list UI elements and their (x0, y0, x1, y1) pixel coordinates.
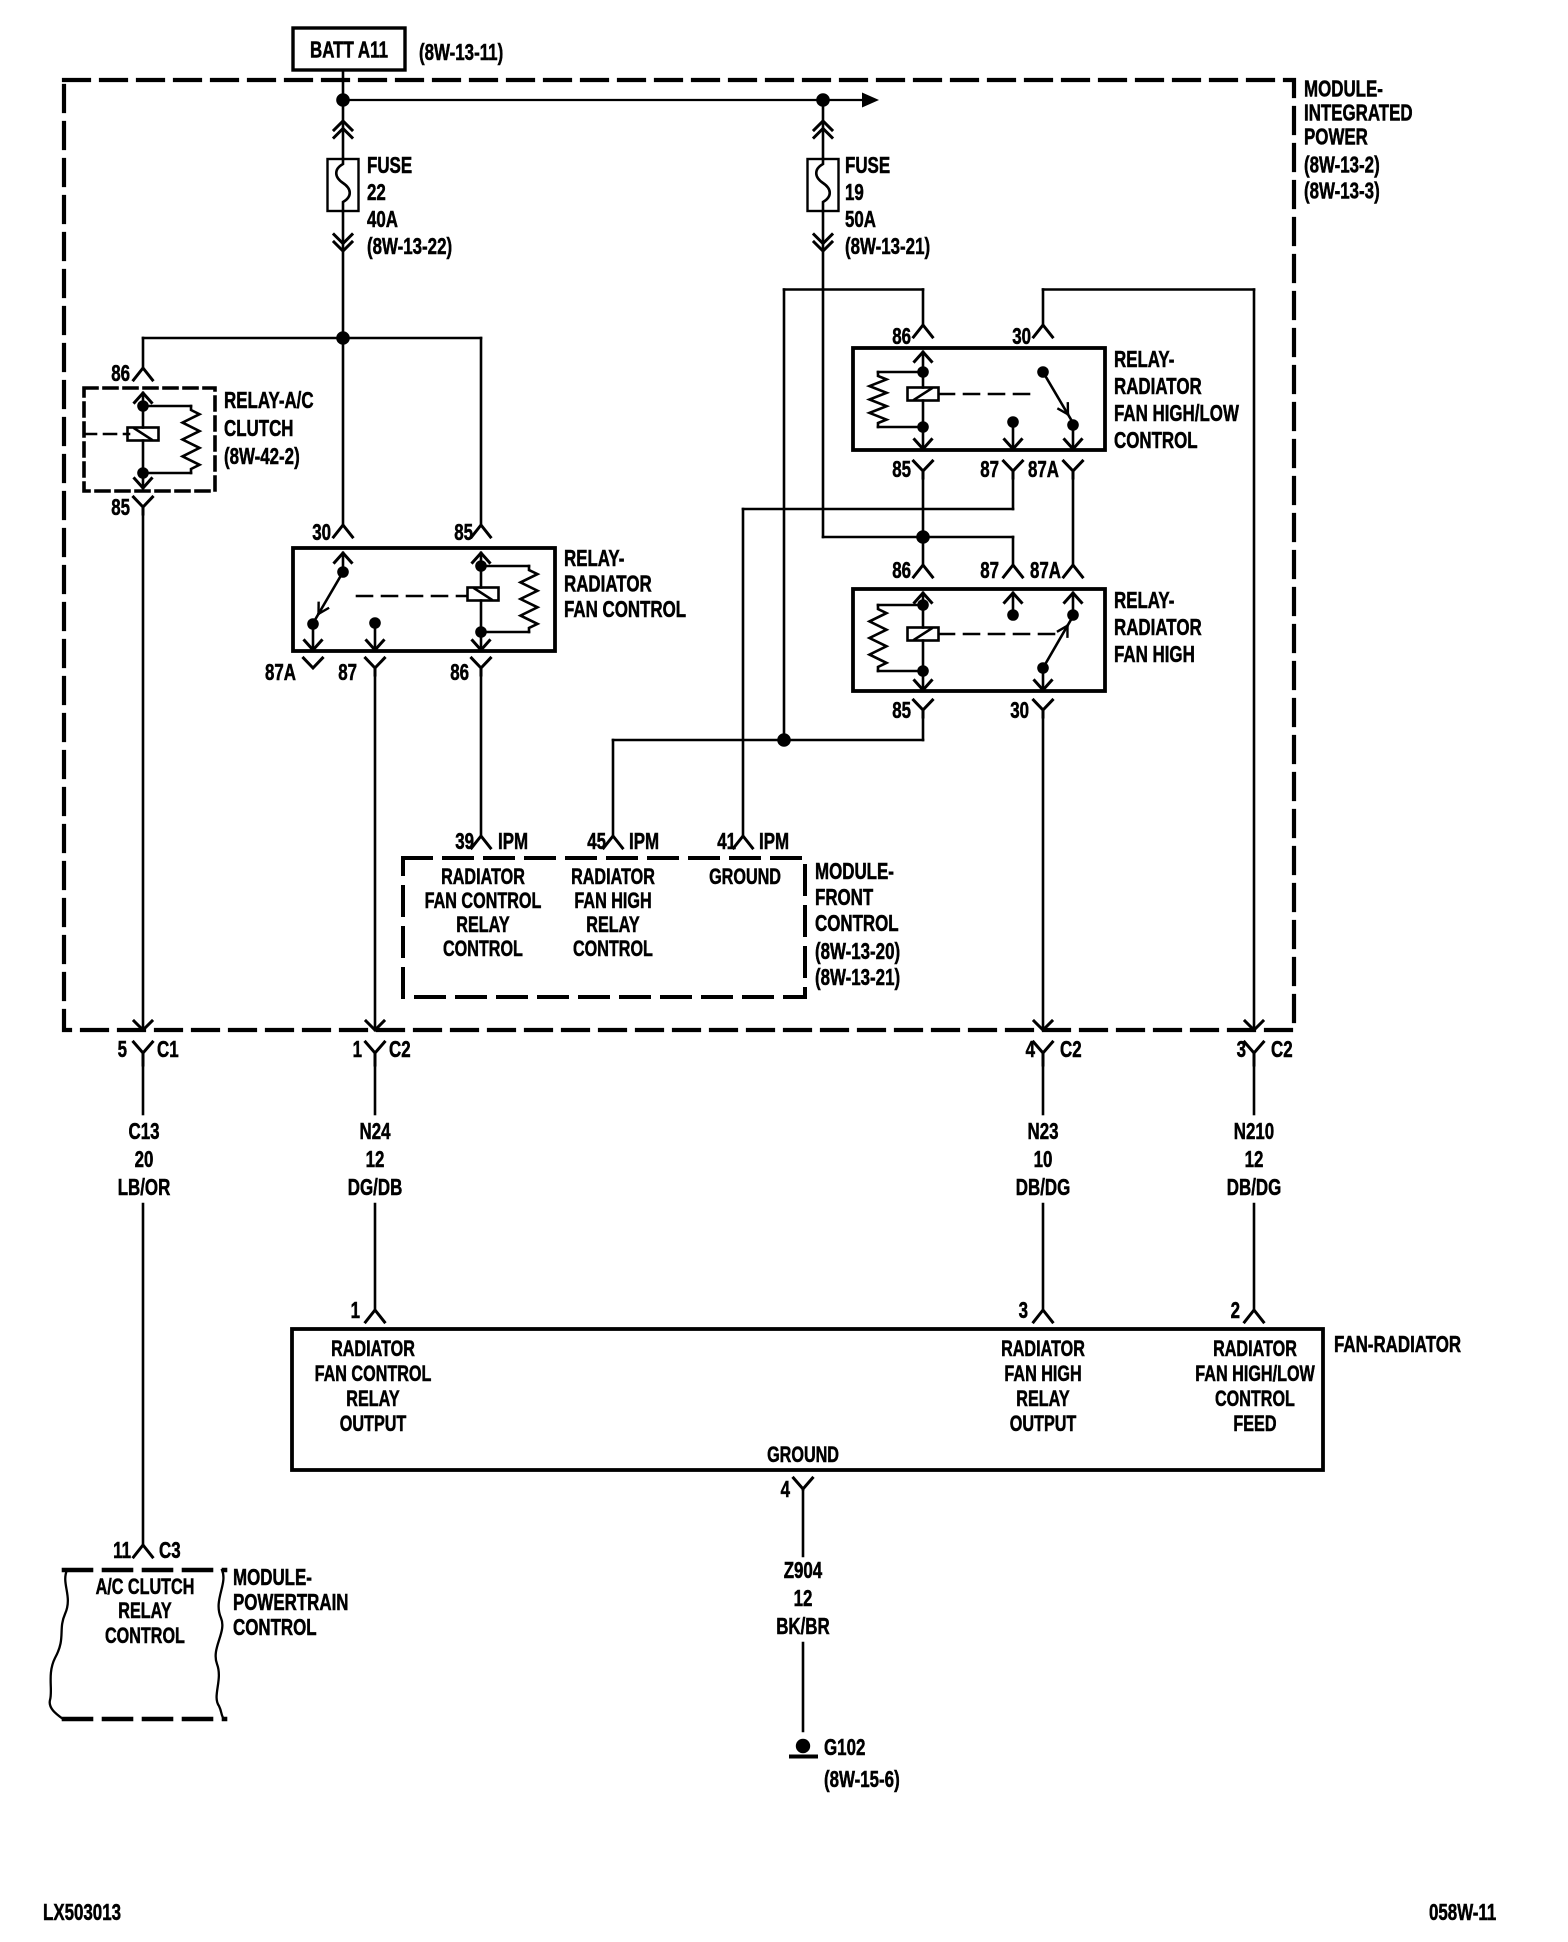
relay high/low switch arm (1043, 372, 1071, 420)
relay A/C clutch suppression resistor (143, 405, 191, 408)
svg-text:3: 3 (1019, 1297, 1028, 1323)
arrowhead battery bus (862, 93, 879, 108)
svg-text:12: 12 (366, 1146, 385, 1172)
relay fan control coil (468, 588, 499, 601)
svg-text:30: 30 (1012, 323, 1031, 349)
svg-text:86: 86 (111, 360, 130, 386)
battery feed box BATT A11 (293, 28, 405, 70)
connector arrow C2-3 (1245, 1021, 1263, 1030)
terminal 87A of fan high relay (1064, 565, 1083, 577)
svg-text:(8W-13-11): (8W-13-11) (419, 39, 503, 65)
terminal IPM 41 (734, 836, 753, 848)
svg-text:87: 87 (980, 557, 999, 583)
terminal fan pin 2 (1245, 1310, 1264, 1322)
svg-text:RELAY-: RELAY- (1114, 587, 1174, 613)
svg-text:C2: C2 (389, 1036, 411, 1062)
svg-text:FAN HIGH/LOW: FAN HIGH/LOW (1114, 400, 1239, 426)
svg-text:DB/DG: DB/DG (1016, 1174, 1071, 1200)
svg-text:FAN CONTROL: FAN CONTROL (564, 596, 686, 622)
relay high/low switch contact node (1067, 419, 1079, 431)
wire N210 12 DB/DG (1253, 1065, 1256, 1114)
svg-text:30: 30 (312, 519, 331, 545)
svg-text:CONTROL: CONTROL (233, 1614, 317, 1640)
terminal 30 of fan high relay bottom (1034, 700, 1053, 710)
relay fan high suppression resistor (878, 604, 923, 607)
svg-text:CONTROL: CONTROL (443, 936, 523, 961)
label RADIATOR FAN HIGH RELAY OUTPUT (1001, 1336, 1085, 1436)
relay A/C clutch dashed outline (84, 388, 215, 491)
svg-text:CLUTCH: CLUTCH (224, 415, 294, 441)
relay high/low actuator dashed link (939, 393, 1032, 396)
module front control dashed box (403, 858, 805, 997)
terminal 86 of fan control relay (472, 658, 491, 668)
terminal C2 pin 3 (1245, 1042, 1264, 1053)
svg-text:FEED: FEED (1233, 1411, 1276, 1436)
svg-text:C3: C3 (159, 1537, 181, 1563)
svg-text:DG/DB: DG/DB (348, 1174, 403, 1200)
svg-text:85: 85 (111, 494, 130, 520)
svg-text:(8W-13-2): (8W-13-2) (1304, 152, 1380, 178)
svg-text:50A: 50A (845, 206, 876, 232)
svg-text:86: 86 (450, 659, 469, 685)
svg-text:39: 39 (455, 828, 474, 854)
relay fan control switch contact node 87A (307, 618, 319, 630)
terminal C2 pin 4 (1034, 1042, 1053, 1053)
wire: BATT A11 down to fuse 22 (342, 70, 345, 159)
svg-text:(8W-42-2): (8W-42-2) (224, 443, 300, 469)
relay high/low coil (908, 388, 939, 401)
relay high/low coil bottom node (917, 421, 929, 433)
svg-text:POWER: POWER (1304, 124, 1368, 150)
svg-text:GROUND: GROUND (709, 864, 781, 889)
relay fan control switch arm (316, 572, 344, 619)
terminal 86 of A/C clutch relay (134, 368, 153, 380)
svg-text:RELAY: RELAY (456, 912, 510, 937)
relay fan control pin 87 node (369, 617, 381, 629)
wire: fan high 85 to junction with IPM 45 net (922, 717, 925, 740)
relay fan high pin 86 arrow (915, 593, 932, 603)
terminal C1 pin 5 (134, 1042, 153, 1053)
wire N23 10 DB/DG (1042, 1065, 1045, 1114)
junction node battery bus right (816, 93, 830, 107)
relay fan high pin 87A arrow (1072, 593, 1075, 615)
relay fan control pin 85 arrow (473, 553, 490, 563)
svg-text:A/C CLUTCH: A/C CLUTCH (96, 1574, 195, 1599)
svg-text:LB/OR: LB/OR (118, 1174, 171, 1200)
svg-text:(8W-13-20): (8W-13-20) (815, 938, 900, 964)
svg-text:RADIATOR: RADIATOR (571, 864, 655, 889)
relay high/low suppression resistor (878, 371, 923, 374)
svg-text:RADIATOR: RADIATOR (331, 1336, 415, 1361)
label RELAY-A/C CLUTCH (224, 387, 314, 469)
label RADIATOR FAN CONTROL RELAY OUTPUT (315, 1336, 432, 1436)
wire: branch down to 86 of A/C clutch relay (142, 338, 145, 368)
connector arrow C1-5 (134, 1021, 152, 1030)
wire: net 86 high/low relay to 85 fan high relay and IPM 45 (784, 288, 923, 291)
svg-text:(8W-13-21): (8W-13-21) (815, 964, 900, 990)
fuse 22 40A (328, 121, 453, 259)
svg-text:C13: C13 (129, 1118, 160, 1144)
svg-text:RADIATOR: RADIATOR (1213, 1336, 1297, 1361)
svg-text:CONTROL: CONTROL (815, 910, 899, 936)
label RADIATOR FAN HIGH/LOW CONTROL FEED (1195, 1336, 1315, 1436)
ground symbol G102 (791, 1739, 816, 1757)
svg-text:87: 87 (338, 659, 357, 685)
relay fan control pin 87 arrow (374, 623, 377, 650)
svg-text:CONTROL: CONTROL (573, 936, 653, 961)
svg-text:RELAY: RELAY (346, 1386, 400, 1411)
relay high/low pin 86 arrow (915, 352, 932, 362)
wire: high/low 85 to fuse19 net (922, 477, 925, 537)
svg-text:GROUND: GROUND (767, 1442, 839, 1467)
svg-text:FAN CONTROL: FAN CONTROL (315, 1361, 432, 1386)
svg-text:FAN HIGH/LOW: FAN HIGH/LOW (1195, 1361, 1315, 1386)
label MODULE-FRONT CONTROL (815, 858, 900, 990)
svg-text:(8W-15-6): (8W-15-6) (824, 1766, 900, 1792)
wire: fuse19 net to 87 of fan high relay (823, 536, 1013, 539)
terminal C2 pin 1 (366, 1042, 385, 1053)
svg-text:IPM: IPM (498, 828, 528, 854)
junction node battery bus left (336, 93, 350, 107)
relay radiator fan high/low control outline (853, 348, 1105, 450)
terminal 30 of fan high/low relay (1034, 325, 1053, 337)
svg-text:45: 45 (587, 828, 606, 854)
wire: battery bus to right with arrowhead (343, 99, 862, 101)
label A/C CLUTCH RELAY CONTROL (96, 1574, 195, 1648)
svg-text:87: 87 (980, 456, 999, 482)
terminal 87 of fan control relay (366, 658, 385, 668)
relay high/low pin 87 node (1007, 416, 1019, 428)
wire: fuse19 net down to 86 of fan high relay (922, 537, 925, 565)
relay A/C clutch coil top node (137, 400, 149, 412)
svg-text:RADIATOR: RADIATOR (564, 571, 652, 597)
svg-text:C2: C2 (1271, 1036, 1293, 1062)
relay fan control coil bottom node (475, 626, 487, 638)
svg-text:IPM: IPM (759, 828, 789, 854)
svg-text:(8W-13-21): (8W-13-21) (845, 233, 930, 259)
terminal 30 of fan control relay (334, 525, 353, 537)
fan-radiator box outline (292, 1329, 1323, 1470)
relay fan high coil bottom node (917, 665, 929, 677)
terminal IPM 39 (472, 836, 491, 848)
terminal 85 of fan high/low relay (914, 461, 933, 471)
terminal fan pin 1 (366, 1310, 385, 1322)
svg-text:FAN HIGH: FAN HIGH (1004, 1361, 1081, 1386)
svg-text:DB/DG: DB/DG (1227, 1174, 1282, 1200)
svg-text:20: 20 (135, 1146, 154, 1172)
relay fan high pin 85 arrow (922, 671, 925, 690)
module-powertrain control torn dashed box (50, 1570, 225, 1719)
relay fan control coil actuator dashed link (357, 595, 467, 598)
wire C13 20 LB/OR (142, 1065, 145, 1114)
svg-text:FRONT: FRONT (815, 884, 873, 910)
svg-text:3: 3 (1237, 1036, 1246, 1062)
relay A/C clutch coil bottom node (137, 467, 149, 479)
svg-text:IPM: IPM (629, 828, 659, 854)
wire: IPM45 net down to IPM pin 45 (612, 740, 615, 836)
svg-text:86: 86 (892, 557, 911, 583)
relay A/C clutch coil dashed actuator stub (84, 433, 129, 436)
svg-text:1: 1 (353, 1036, 363, 1062)
svg-text:RELAY-A/C: RELAY-A/C (224, 387, 314, 413)
terminal 87A of fan control relay (304, 658, 323, 668)
wire N24 12 DG/DB (374, 1065, 377, 1114)
relay fan high pin 30 arrow (1042, 668, 1045, 690)
wire: fan control relay 87 to connector C2-1 (374, 675, 377, 1030)
svg-text:CONTROL: CONTROL (105, 1623, 185, 1648)
relay fan high pin 87 arrow (1012, 593, 1015, 615)
relay fan high switch arm (1043, 621, 1071, 669)
label RELAY-RADIATOR FAN CONTROL (564, 545, 686, 622)
relay radiator fan control outline (293, 548, 555, 651)
label MODULE-POWERTRAIN CONTROL (233, 1564, 349, 1640)
svg-text:058W-11: 058W-11 (1429, 1899, 1496, 1925)
svg-text:RELAY-: RELAY- (564, 545, 624, 571)
relay fan control pin 86 arrow (480, 632, 483, 650)
svg-text:RELAY-: RELAY- (1114, 346, 1174, 372)
wire: fuse 19 down to relay net (822, 211, 825, 537)
relay fan control switch pivot node (337, 566, 349, 578)
svg-text:4: 4 (1026, 1036, 1036, 1062)
svg-text:86: 86 (892, 323, 911, 349)
relay fan control pin 30 arrow (335, 553, 352, 563)
svg-text:41: 41 (717, 828, 736, 854)
svg-text:FAN HIGH: FAN HIGH (574, 888, 651, 913)
svg-text:30: 30 (1010, 697, 1029, 723)
wire: feed node branch left and right (143, 337, 481, 340)
terminal 86 of fan high relay (914, 565, 933, 577)
terminal fan pin 3 (1034, 1310, 1053, 1322)
svg-text:87A: 87A (265, 659, 296, 685)
junction node IPM45 net (777, 733, 791, 747)
svg-text:2: 2 (1231, 1297, 1240, 1323)
fuse 19 50A (808, 121, 931, 259)
relay fan control suppression resistor (481, 565, 529, 568)
terminal 85 of fan high relay bottom (914, 700, 933, 710)
svg-text:N23: N23 (1028, 1118, 1059, 1144)
wire: battery bus down to fuse 19 (822, 100, 825, 159)
svg-text:N24: N24 (360, 1118, 391, 1144)
terminal fan pin 4 ground (794, 1478, 813, 1489)
wire: high/low 87 to IPM 41 ground (1012, 477, 1015, 509)
svg-text:RADIATOR: RADIATOR (1001, 1336, 1085, 1361)
terminal 85 of A/C clutch relay (134, 497, 153, 507)
relay high/low pin 87A arrow (1072, 425, 1075, 449)
relay fan high pin 87A node (1067, 609, 1079, 621)
svg-text:G102: G102 (824, 1734, 865, 1760)
svg-text:LX503013: LX503013 (43, 1899, 121, 1925)
relay high/low switch pivot node (1037, 366, 1049, 378)
svg-text:RADIATOR: RADIATOR (1114, 373, 1202, 399)
wire: feed node to pin 85 of fan control relay (480, 338, 483, 525)
svg-text:19: 19 (845, 179, 864, 205)
svg-text:FAN-RADIATOR: FAN-RADIATOR (1334, 1331, 1461, 1357)
svg-text:22: 22 (367, 179, 386, 205)
svg-text:(8W-13-3): (8W-13-3) (1304, 178, 1380, 204)
svg-text:OUTPUT: OUTPUT (1010, 1411, 1077, 1436)
terminal 85 of fan control relay (472, 525, 491, 537)
svg-text:MODULE-: MODULE- (815, 858, 894, 884)
wire: 30 of high/low relay to C2-3 riser (1043, 288, 1254, 291)
svg-text:40A: 40A (367, 206, 398, 232)
svg-text:MODULE-: MODULE- (1304, 76, 1383, 102)
svg-text:N210: N210 (1234, 1118, 1274, 1144)
relay A/C clutch pin 86 arrow (135, 393, 152, 403)
svg-text:85: 85 (892, 456, 911, 482)
svg-text:85: 85 (454, 519, 473, 545)
relay A/C clutch pin 85 arrow (142, 473, 145, 488)
svg-text:FAN HIGH: FAN HIGH (1114, 641, 1195, 667)
terminal IPM 45 (604, 836, 623, 848)
wire: high/low 87A to fan high 87A (1072, 477, 1075, 565)
svg-text:85: 85 (892, 697, 911, 723)
relay fan high pin 87 node (1007, 609, 1019, 621)
relay A/C clutch coil (128, 428, 159, 441)
wire: fan control relay 86 to IPM pin 39 (480, 675, 483, 836)
relay fan high actuator dashed link (939, 633, 1055, 636)
label RELAY-RADIATOR FAN HIGH (1114, 587, 1202, 667)
relay fan high coil top node (917, 599, 929, 611)
svg-text:87A: 87A (1030, 557, 1061, 583)
svg-text:MODULE-: MODULE- (233, 1564, 312, 1590)
svg-text:RELAY: RELAY (1016, 1386, 1070, 1411)
svg-text:INTEGRATED: INTEGRATED (1304, 100, 1413, 126)
label RELAY-RADIATOR FAN HIGH/LOW CONTROL (1114, 346, 1239, 453)
svg-text:12: 12 (1245, 1146, 1264, 1172)
relay fan high coil (908, 628, 939, 641)
relay fan control pin 87A arrow (312, 624, 315, 650)
relay high/low pin 87 arrow (1012, 422, 1015, 449)
junction node fuse 22 output (336, 331, 350, 345)
relay radiator fan high outline (853, 589, 1105, 691)
svg-text:RELAY: RELAY (586, 912, 640, 937)
svg-text:BATT A11: BATT A11 (310, 37, 388, 63)
terminal 87 of fan high/low relay (1004, 461, 1023, 471)
svg-text:CONTROL: CONTROL (1114, 427, 1198, 453)
connector arrow C2-4 (1034, 1021, 1052, 1030)
svg-text:FUSE: FUSE (367, 152, 412, 178)
label RADIATOR FAN HIGH RELAY CONTROL (571, 864, 655, 961)
relay fan high switch contact node 30 (1037, 662, 1049, 674)
relay high/low coil top node (917, 366, 929, 378)
relay fan control coil top node (475, 560, 487, 572)
svg-text:POWERTRAIN: POWERTRAIN (233, 1589, 349, 1615)
svg-text:BK/BR: BK/BR (776, 1613, 830, 1639)
terminal 86 of fan high/low relay (914, 325, 933, 337)
svg-text:RADIATOR: RADIATOR (441, 864, 525, 889)
svg-text:10: 10 (1034, 1146, 1053, 1172)
svg-text:12: 12 (794, 1585, 813, 1611)
svg-text:87A: 87A (1028, 456, 1059, 482)
svg-text:4: 4 (781, 1476, 791, 1502)
wire: fan high 30 to connector C2-4 (1042, 717, 1045, 1030)
svg-text:OUTPUT: OUTPUT (340, 1411, 407, 1436)
label MODULE-INTEGRATED POWER (1304, 76, 1413, 204)
terminal 87A of fan high/low relay (1064, 461, 1083, 471)
connector arrow C2-1 (366, 1021, 384, 1030)
terminal C3 pin 11 (134, 1545, 153, 1557)
relay high/low pin 85 arrow (922, 427, 925, 449)
svg-text:11: 11 (113, 1537, 131, 1563)
label RADIATOR FAN CONTROL RELAY CONTROL (425, 864, 542, 961)
svg-text:RADIATOR: RADIATOR (1114, 614, 1202, 640)
svg-text:RELAY: RELAY (118, 1598, 172, 1623)
wire: fuse 22 to relay feed node (342, 211, 345, 338)
svg-text:(8W-13-22): (8W-13-22) (367, 233, 452, 259)
wire Z904 12 BK/BR to ground (802, 1489, 805, 1556)
svg-text:C1: C1 (157, 1036, 179, 1062)
svg-text:CONTROL: CONTROL (1215, 1386, 1295, 1411)
junction node fuse19 net (916, 530, 930, 544)
svg-text:5: 5 (118, 1036, 128, 1062)
svg-text:Z904: Z904 (784, 1557, 823, 1583)
terminal 87 of fan high relay (1004, 565, 1023, 577)
svg-text:1: 1 (351, 1297, 361, 1323)
wire: A/C clutch relay 85 to connector C1-5 (142, 514, 145, 1030)
wire: feed node to pin 30 of fan control relay (342, 338, 345, 525)
svg-text:FAN CONTROL: FAN CONTROL (425, 888, 542, 913)
svg-text:FUSE: FUSE (845, 152, 890, 178)
module-integrated power module dashed boundary (64, 80, 1294, 1030)
svg-text:C2: C2 (1060, 1036, 1082, 1062)
